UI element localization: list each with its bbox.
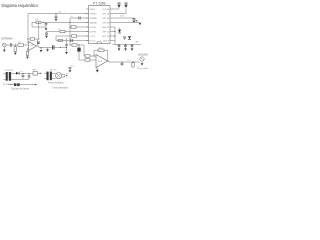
svg-text:Plug salida: Plug salida xyxy=(137,68,148,70)
junction x60.5 xyxy=(60,47,61,48)
wire y44.5 right xyxy=(113,44,142,46)
wire y27 loop bottom xyxy=(32,26,46,28)
svg-text:5 LPF1: 5 LPF1 xyxy=(90,27,97,29)
feedback loop opamp2 xyxy=(107,50,109,61)
svg-text:TR 220V: TR 220V xyxy=(5,70,14,72)
wire pin y18 to cap gnd x134 xyxy=(113,17,135,19)
ground under jack xyxy=(3,47,5,50)
diode at x129.5 xyxy=(128,36,131,39)
cap C2 vertical at x46 xyxy=(45,22,47,23)
electro cap x126 xyxy=(113,13,127,15)
cap to ground 3 on y44.5 xyxy=(131,44,134,51)
bridge rectifier xyxy=(56,73,62,79)
input jack J1 xyxy=(2,43,6,47)
svg-text:OUT 10: OUT 10 xyxy=(102,36,110,38)
transformer T1 xyxy=(6,72,8,81)
wire row y45 x70-84 with resistor xyxy=(70,44,84,46)
wire row y31.5 to pin 6 xyxy=(47,31,89,33)
loop network: wire y22.3 xyxy=(32,21,89,23)
cap to ground 1 on y44.5 xyxy=(118,44,121,51)
diode D1 on rail xyxy=(16,72,19,75)
svg-text:8 CC0: 8 CC0 xyxy=(90,40,97,42)
opamp1 output wire y47.5 xyxy=(37,45,39,47)
IC U1 body xyxy=(89,6,111,44)
svg-text:Diagrama esquemático: Diagrama esquemático xyxy=(2,3,39,8)
cap to gnd chain at x46.5 xyxy=(46,32,48,34)
resistor R2 horizontal xyxy=(18,44,24,47)
right bus x115 xyxy=(113,26,116,28)
opamp2 minus input wire y56 xyxy=(84,55,96,57)
output wire to jack xyxy=(108,60,109,62)
wire C1 to R2 xyxy=(12,44,18,46)
IC U1 notch xyxy=(97,41,102,43)
diode down at x119.5 xyxy=(119,28,121,30)
svg-text:INP 11: INP 11 xyxy=(103,31,110,33)
feedback top loop wire y39 xyxy=(28,38,38,40)
resistor hang at x133 xyxy=(132,61,133,62)
svg-text:D1: D1 xyxy=(21,71,23,73)
svg-text:CLK 16: CLK 16 xyxy=(102,9,110,11)
ground under x46 xyxy=(45,27,47,28)
vertical cap 2 x29 xyxy=(28,73,29,74)
resistor R1 vertical to ground xyxy=(14,45,16,47)
svg-text:PT 2399: PT 2399 xyxy=(93,2,106,6)
IC pins right stubs xyxy=(110,9,113,41)
svg-text:Circuito de fuente: Circuito de fuente xyxy=(11,88,30,91)
op-amp U2A triangle xyxy=(29,42,37,51)
wire row y27 right portion with resistor xyxy=(70,26,89,28)
feedback vertical long up from minus input xyxy=(27,14,29,44)
vertical x38.8 from y22.3 to feedback wire xyxy=(38,22,40,39)
svg-text:OP1 14: OP1 14 xyxy=(102,18,110,20)
IC pin name text right column xyxy=(102,9,110,43)
gnd hang x41 xyxy=(40,47,41,48)
electro cap x119 xyxy=(118,7,120,10)
vertical cap 1 x23 xyxy=(22,73,23,74)
svg-text:ENTRADA: ENTRADA xyxy=(1,37,13,40)
cap to ground 2 on y44.5 xyxy=(124,44,127,51)
wire jack to C1 xyxy=(6,44,10,46)
regulator box xyxy=(33,72,38,76)
svg-text:OP2 15: OP2 15 xyxy=(102,13,110,15)
node dot xyxy=(15,44,16,45)
svg-text:SALIDA: SALIDA xyxy=(138,53,148,56)
wire row y40.5 to pin 8 xyxy=(56,40,89,42)
opamp plus input lower wire and R4 to ground xyxy=(28,47,29,49)
T1 left leads xyxy=(3,72,5,74)
svg-text:22k: 22k xyxy=(35,19,38,21)
wire row y13.5 from feedback bus to pin 2 xyxy=(28,13,89,15)
vertical x32 xyxy=(31,22,33,27)
svg-text:GND 12: GND 12 xyxy=(102,27,110,29)
small resistor on y40.5 row left xyxy=(58,39,63,41)
svg-text:100n: 100n xyxy=(120,16,124,18)
output jack xyxy=(140,57,144,61)
vertical x66.5 y38-52 with cap and gnd xyxy=(66,38,68,44)
cap hang at x122 xyxy=(121,61,122,62)
svg-text:Puente rectificador: Puente rectificador xyxy=(48,81,64,84)
svg-text:3 VREF: 3 VREF xyxy=(90,18,98,20)
svg-text:1 AO1: 1 AO1 xyxy=(90,8,96,11)
junction dots xyxy=(43,22,44,23)
svg-text:10u: 10u xyxy=(127,60,130,62)
svg-text:Fuente de alimentación: Fuente de alimentación xyxy=(53,86,69,89)
gnd hang x47.5 xyxy=(47,48,49,50)
T2 leads xyxy=(44,72,46,74)
bottom rail xyxy=(8,84,14,86)
op-amp U2B triangle xyxy=(96,55,108,68)
svg-text:Vref: Vref xyxy=(70,64,74,67)
svg-text:7 CC1: 7 CC1 xyxy=(90,36,97,38)
top rail xyxy=(11,72,16,74)
IC pin name text left column xyxy=(90,8,98,43)
svg-text:VDD 9: VDD 9 xyxy=(103,40,110,42)
wire pin1 y9 to cap xyxy=(113,8,120,10)
ground below opamp2 xyxy=(96,67,99,70)
svg-text:OP0 13: OP0 13 xyxy=(102,22,110,24)
wire pin y22.5 to gnd x140 xyxy=(113,22,141,24)
svg-text:2 REXT: 2 REXT xyxy=(90,13,98,15)
svg-text:15k: 15k xyxy=(58,29,61,31)
cap in output leg (dark blob) xyxy=(37,41,40,43)
wire row y36 to pin 7 with resistor xyxy=(56,35,89,37)
potentiometer above opamp2 xyxy=(77,48,80,52)
T stub at x136 above y22.5 xyxy=(136,20,138,22)
IC pins left stubs xyxy=(86,9,89,41)
opamp2 plus input wire y60 xyxy=(79,59,96,61)
resistor on y31.5 xyxy=(60,30,65,32)
svg-text:1u: 1u xyxy=(71,16,73,18)
capacitor C1 xyxy=(9,43,11,47)
wire R2 to opamp xyxy=(24,44,29,46)
svg-text:+9V: +9V xyxy=(135,41,139,43)
feedback resistor R3 xyxy=(30,38,34,40)
bridge out wires xyxy=(62,74,65,76)
svg-text:10k: 10k xyxy=(58,12,61,14)
switch block on bottom rail xyxy=(14,83,17,86)
vertical x56 connecting y36-y40.5 xyxy=(55,36,57,41)
svg-text:6 LPF2: 6 LPF2 xyxy=(90,31,97,33)
mid rail xyxy=(11,78,29,80)
transformer T2 xyxy=(47,72,49,81)
svg-text:TR2 9V: TR2 9V xyxy=(50,69,58,71)
cap on y18 near IC xyxy=(78,17,80,20)
vertical bus x70 y18-45 xyxy=(69,18,71,45)
cap-gnd hanging at x56 on row13.5 xyxy=(55,13,56,14)
series electrolytic cap on wire x52-54 xyxy=(52,45,54,49)
wire row y18 from bus to pin 3 with cap xyxy=(70,17,89,19)
svg-text:4 AGND: 4 AGND xyxy=(90,21,98,24)
resistor R5 on y22.3 xyxy=(36,21,41,23)
